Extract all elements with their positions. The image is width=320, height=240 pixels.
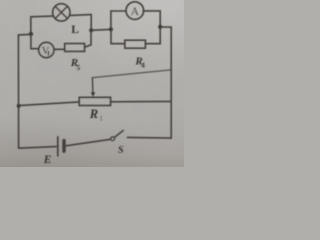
label R1 [89,107,104,122]
battery E [58,137,64,156]
wire: battery to switch [66,139,111,146]
label R4 [134,56,145,70]
node A [89,28,93,32]
wire: left rail vertical [17,35,19,148]
wire: node P down to voltmeter [31,34,39,49]
wire: R4 right up to node C [145,28,160,44]
svg-text:L: L [71,24,79,36]
ammeter A [126,2,144,20]
wire: node P left to rail [18,33,31,36]
lamp L [53,4,70,21]
svg-text:E: E [43,154,52,166]
voltmeter V1 [39,42,54,57]
wire: node C to right rail and down [160,27,171,138]
node C [158,25,162,29]
wire: voltmeter to R5 [54,48,65,50]
wire: rheostat slider tap to right rail [92,70,171,78]
wire: lamp right to corner [70,14,91,17]
wire: bottom left corner to battery [19,147,57,149]
node B [109,27,113,31]
paper background [0,0,184,167]
switch S [111,130,172,140]
svg-text:A: A [131,6,140,18]
svg-text:4: 4 [141,62,145,70]
wire: vertical down to node A [90,15,92,31]
wire: rheostat right to right rail [111,100,172,102]
rheostat R1 [79,78,110,106]
wire: R5 right up to node A [85,30,91,47]
label R5 [70,57,81,72]
wire: top horizontal to lamp [31,15,53,18]
svg-text:1: 1 [99,114,103,122]
svg-text:R: R [89,107,98,121]
wire: node B down to resistor R4 [111,29,125,43]
wire: top-left corner vertical above node P [30,17,32,34]
resistor R5 [65,44,85,52]
wire: ammeter right to node C [143,11,160,27]
wire: node A to node B [91,28,111,31]
node P junction dot [29,32,33,36]
svg-text:5: 5 [77,64,81,72]
resistor R4 [125,40,146,48]
junction dot on left rail [17,104,21,108]
wire: left rail to rheostat [19,102,79,106]
svg-text:S: S [118,145,124,156]
wire: node B up and to ammeter [111,11,126,29]
